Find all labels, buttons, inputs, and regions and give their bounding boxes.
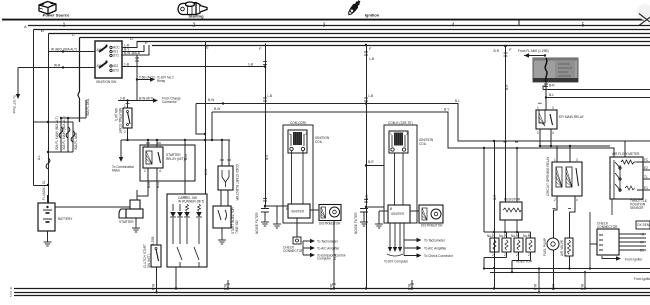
- svg-text:FUEL PUMP: FUEL PUMP: [543, 238, 547, 256]
- svg-text:B-W: B-W: [147, 182, 151, 188]
- svg-text:From FL AM2 (1.25B): From FL AM2 (1.25B): [518, 49, 549, 53]
- svg-text:0.5B (ACC): 0.5B (ACC): [139, 76, 155, 80]
- svg-text:SENSOR: SENSOR: [630, 206, 644, 210]
- svg-text:From Igniter: From Igniter: [625, 257, 643, 261]
- svg-text:NOISE FILTER: NOISE FILTER: [255, 212, 259, 234]
- svg-text:2: 2: [124, 130, 126, 134]
- svg-text:1: 1: [390, 132, 392, 136]
- svg-text:E2: E2: [644, 166, 648, 170]
- svg-text:2: 2: [537, 131, 539, 135]
- svg-text:B-R: B-R: [505, 84, 509, 90]
- svg-text:COIL: COIL: [315, 140, 323, 144]
- svg-text:B-W: B-W: [208, 98, 214, 102]
- svg-text:4: 4: [552, 131, 554, 135]
- svg-text:2: 2: [305, 132, 307, 136]
- svg-text:1-B: 1-B: [267, 94, 272, 98]
- svg-text:W-R: W-R: [54, 64, 61, 68]
- svg-text:To A/C Amplifier: To A/C Amplifier: [317, 246, 340, 250]
- svg-text:B-Y: B-Y: [444, 108, 450, 112]
- svg-text:INJECTOR: INJECTOR: [516, 260, 533, 264]
- svg-text:AM2: AM2: [97, 64, 104, 68]
- svg-text:ST2: ST2: [113, 69, 119, 73]
- svg-text:BATTERY: BATTERY: [58, 217, 73, 221]
- svg-text:3: 3: [576, 158, 578, 162]
- svg-text:30A FL MAIN (80A ALT): 30A FL MAIN (80A ALT): [62, 116, 66, 150]
- svg-text:1: 1: [554, 158, 556, 162]
- svg-text:4: 4: [159, 169, 161, 173]
- svg-text:B-W (A/T): B-W (A/T): [139, 97, 153, 101]
- svg-text:E: E: [145, 40, 148, 45]
- svg-text:2-B: 2-B: [120, 97, 125, 101]
- svg-text:Computer: Computer: [317, 257, 332, 261]
- svg-text:30A FL AM1: 30A FL AM1: [86, 99, 90, 116]
- svg-text:1: 1: [289, 132, 291, 136]
- svg-text:AIR FLOW METER: AIR FLOW METER: [612, 152, 640, 156]
- svg-text:1-B: 1-B: [368, 94, 373, 98]
- svg-text:B-W 36A-B: B-W 36A-B: [124, 51, 140, 55]
- svg-text:1.25B: 1.25B: [151, 237, 155, 245]
- svg-text:W-B: W-B: [533, 284, 537, 290]
- svg-text:1: 1: [537, 106, 539, 110]
- svg-text:B: B: [286, 207, 288, 211]
- svg-text:To EFI Computer: To EFI Computer: [384, 260, 409, 264]
- svg-text:B-R: B-R: [494, 49, 500, 53]
- svg-text:Starting: Starting: [188, 14, 204, 19]
- svg-text:SW (M/T): SW (M/T): [147, 254, 151, 268]
- svg-text:2: 2: [492, 253, 494, 257]
- svg-text:Ignition: Ignition: [365, 13, 380, 18]
- svg-text:B-W: B-W: [184, 154, 188, 160]
- svg-text:FL MAIN 2.0L: FL MAIN 2.0L: [42, 180, 46, 200]
- svg-text:W-B: W-B: [551, 284, 555, 290]
- svg-text:2: 2: [406, 132, 408, 136]
- svg-text:B: B: [41, 28, 44, 33]
- svg-text:DISTRIBUTOR: DISTRIBUTOR: [319, 222, 341, 226]
- svg-text:W-B: W-B: [151, 284, 155, 290]
- svg-text:EFI MAIN RELAY: EFI MAIN RELAY: [559, 115, 585, 119]
- svg-text:B-R: B-R: [265, 154, 269, 160]
- svg-text:B-L: B-L: [455, 99, 460, 103]
- svg-text:B-L: B-L: [549, 93, 554, 97]
- svg-text:STARTER: STARTER: [119, 220, 134, 224]
- svg-text:A: A: [23, 24, 27, 29]
- svg-text:OX SENSOR: OX SENSOR: [637, 223, 650, 227]
- svg-text:1: 1: [124, 104, 126, 108]
- svg-text:3: 3: [159, 144, 161, 148]
- svg-text:2: 2: [554, 198, 556, 202]
- svg-text:COM-E (22R-TE): COM-E (22R-TE): [388, 121, 413, 125]
- svg-text:B-W: B-W: [156, 182, 160, 188]
- svg-text:1-B: 1-B: [248, 63, 253, 67]
- svg-text:C: C: [72, 32, 75, 37]
- svg-text:D: D: [130, 36, 133, 41]
- svg-text:To Tachometer: To Tachometer: [317, 239, 339, 243]
- svg-text:ST1: ST1: [113, 54, 119, 58]
- svg-text:W-B: W-B: [333, 254, 337, 260]
- svg-text:NOISE FILTER: NOISE FILTER: [354, 212, 358, 234]
- svg-text:30A FL AM2: 30A FL AM2: [74, 133, 78, 150]
- svg-text:2: 2: [10, 294, 12, 298]
- svg-text:B-R: B-R: [365, 194, 369, 200]
- svg-text:2: 2: [516, 253, 518, 257]
- svg-text:RELAY (M/T): RELAY (M/T): [166, 157, 185, 161]
- svg-text:NEUTRAL START: NEUTRAL START: [118, 108, 122, 134]
- svg-text:RESISTOR: RESISTOR: [504, 198, 521, 202]
- svg-text:To Tachometer: To Tachometer: [424, 238, 446, 242]
- svg-text:E1: E1: [640, 248, 644, 252]
- svg-text:1: 1: [492, 233, 494, 237]
- svg-text:TL: TL: [644, 175, 648, 179]
- svg-text:W-B: W-B: [223, 284, 227, 290]
- svg-text:IG2: IG2: [113, 64, 118, 68]
- svg-text:30A FL MAIN (80A ALT): 30A FL MAIN (80A ALT): [55, 116, 59, 150]
- svg-text:2: 2: [144, 169, 146, 173]
- svg-text:W-B: W-B: [407, 284, 411, 290]
- svg-text:AM1: AM1: [97, 48, 104, 52]
- svg-text:AIR VALVE: AIR VALVE: [560, 240, 564, 256]
- svg-text:A-L: A-L: [37, 155, 41, 160]
- svg-text:W-B: W-B: [580, 284, 584, 290]
- svg-text:IN RUNNER (M/T): IN RUNNER (M/T): [178, 200, 204, 204]
- svg-text:Relay: Relay: [157, 79, 166, 83]
- svg-text:From Ignition Sw: From Ignition Sw: [634, 277, 650, 281]
- svg-text:A-W: A-W: [204, 169, 208, 175]
- svg-text:IGNITION SW: IGNITION SW: [96, 80, 116, 84]
- svg-text:1: 1: [504, 233, 506, 237]
- svg-text:CIRCUIT OPENING RELAY: CIRCUIT OPENING RELAY: [546, 156, 550, 196]
- svg-text:3: 3: [552, 106, 554, 110]
- svg-text:B: B: [390, 207, 392, 211]
- svg-text:CONNECTOR: CONNECTOR: [597, 225, 618, 229]
- svg-text:W-B: W-B: [329, 284, 333, 290]
- svg-text:4: 4: [576, 198, 578, 202]
- svg-text:+B: +B: [640, 232, 644, 236]
- svg-text:To Check Connector: To Check Connector: [424, 254, 454, 258]
- svg-text:1: 1: [144, 144, 146, 148]
- svg-text:Power Source: Power Source: [43, 13, 70, 18]
- svg-text:E: E: [206, 45, 209, 50]
- svg-text:1: 1: [516, 233, 518, 237]
- svg-text:COM (22R): COM (22R): [290, 121, 306, 125]
- svg-text:COLD START INJECTOR: COLD START INJECTOR: [235, 164, 239, 201]
- svg-text:B-W: B-W: [214, 107, 220, 111]
- svg-text:TIME SW: TIME SW: [235, 220, 239, 234]
- svg-text:FC: FC: [644, 158, 649, 162]
- svg-text:E1: E1: [644, 186, 648, 190]
- svg-text:COIL: COIL: [419, 142, 427, 146]
- svg-text:B-R: B-R: [549, 84, 555, 88]
- svg-text:To "ST" Fuse: To "ST" Fuse: [12, 95, 16, 114]
- svg-text:W 3B/O (80A ALT): W 3B/O (80A ALT): [51, 48, 77, 52]
- svg-text:IGNITER: IGNITER: [291, 210, 305, 214]
- svg-text:DISTRIBUTOR: DISTRIBUTOR: [421, 224, 443, 228]
- svg-text:CONNECTOR: CONNECTOR: [283, 249, 304, 253]
- svg-text:1-B: 1-B: [369, 57, 374, 61]
- svg-text:1-B: 1-B: [124, 63, 129, 67]
- svg-text:B-R: B-R: [368, 160, 374, 164]
- svg-text:2: 2: [504, 253, 506, 257]
- svg-text:Meter: Meter: [112, 169, 121, 173]
- svg-text:Connector: Connector: [162, 100, 178, 104]
- svg-text:1: 1: [528, 233, 530, 237]
- svg-text:VF: VF: [640, 240, 644, 244]
- svg-text:To A/C Amplifier: To A/C Amplifier: [424, 246, 447, 250]
- svg-text:SW (A/T): SW (A/T): [114, 108, 118, 121]
- svg-text:IGNITER: IGNITER: [391, 212, 405, 216]
- svg-text:B-R: B-R: [493, 194, 497, 200]
- svg-text:2: 2: [528, 253, 530, 257]
